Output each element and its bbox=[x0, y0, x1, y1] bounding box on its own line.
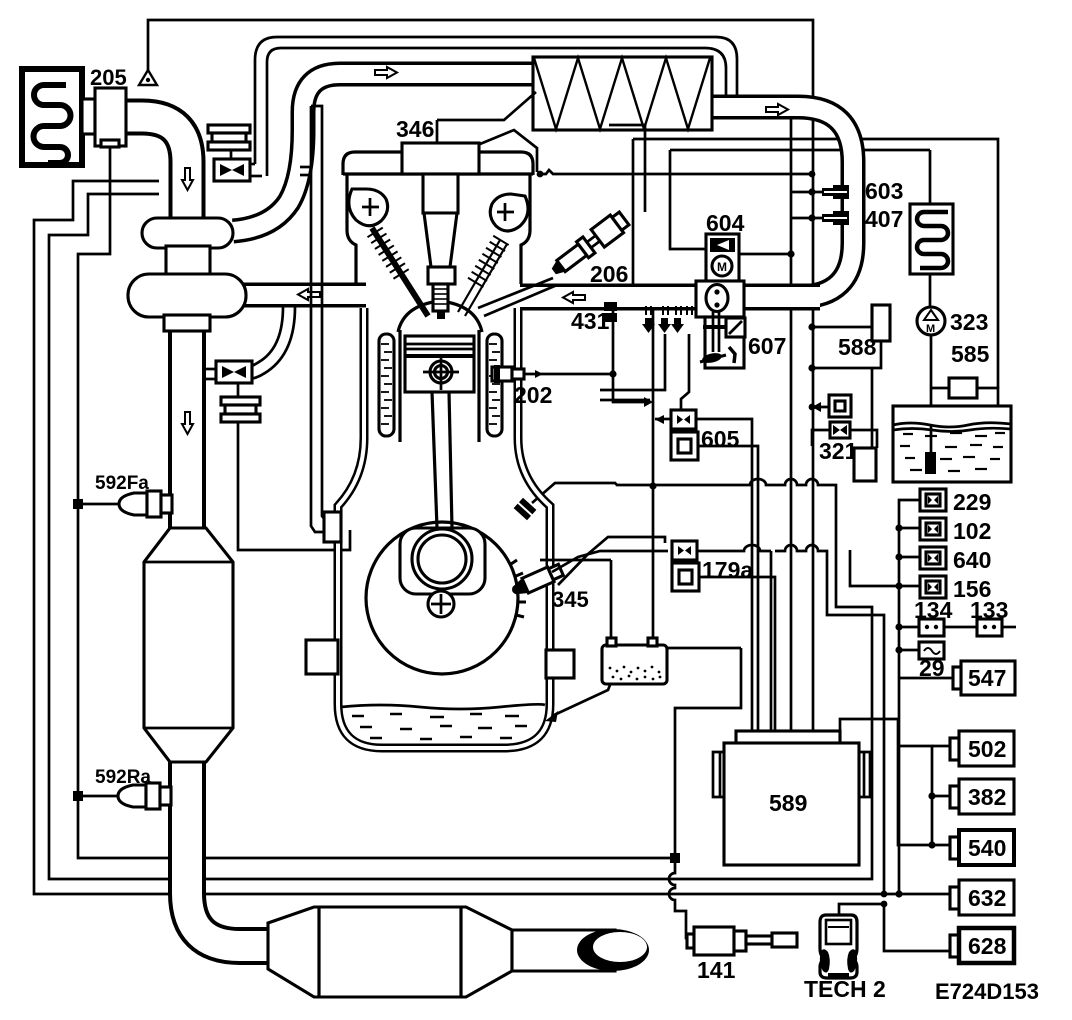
conrod bbox=[432, 392, 437, 528]
canister bbox=[602, 645, 667, 684]
svg-text:29: 29 bbox=[919, 655, 945, 681]
heater box 407b bbox=[929, 150, 932, 204]
bottom connector boxes bbox=[950, 731, 1014, 766]
exhaust downpipe turbo->catalyst bbox=[168, 328, 206, 532]
svg-text:502: 502 bbox=[968, 736, 1006, 762]
water jacket gauges bbox=[379, 334, 394, 436]
TECH2 scanner bbox=[820, 915, 857, 978]
exhaust port teardrop right bbox=[490, 194, 528, 231]
crankshaft big circle bbox=[511, 560, 526, 617]
svg-text:102: 102 bbox=[953, 518, 991, 544]
321 connectors bbox=[829, 395, 851, 417]
wire canister top corner bbox=[667, 647, 741, 650]
svg-text:431: 431 bbox=[571, 308, 610, 334]
svg-text:640: 640 bbox=[953, 547, 991, 573]
wastegate actuator capsule bbox=[237, 383, 240, 397]
breather thin pipe x311/x322 bbox=[311, 106, 326, 532]
cylinder head outer walls bbox=[347, 174, 356, 284]
179a wires bbox=[697, 545, 771, 731]
wire head-top y174 to right bundle bbox=[541, 170, 812, 174]
svg-text:346: 346 bbox=[396, 116, 434, 142]
svg-text:382: 382 bbox=[968, 784, 1006, 810]
svg-text:547: 547 bbox=[968, 665, 1006, 691]
manifold nipples + arrows bbox=[646, 306, 692, 315]
wire W_B: stub on intake pipe -> x49 -> y879 -> up x872 -> y607 -> x836 -> y485 -> sensor S1 bbox=[49, 194, 872, 879]
canister vent wire from sump bbox=[552, 680, 612, 716]
wire ECU x840 to 502/382/540 tree bbox=[840, 719, 950, 845]
29 bbox=[919, 642, 944, 659]
179a connector pair bbox=[672, 541, 697, 560]
muffler bbox=[268, 907, 512, 997]
ECU 589 bbox=[736, 731, 840, 745]
injector spray lines bbox=[478, 278, 553, 308]
air filter bbox=[22, 69, 82, 165]
idle bypass valve (top) bbox=[214, 159, 250, 181]
damper capsule above valve bbox=[230, 147, 233, 159]
wire W_A: stub on intake pipe -> left border x34 -> bottom y894 -> connector 632 bbox=[34, 181, 952, 894]
exhaust pipe catalyst->muffler bbox=[187, 758, 272, 946]
205 mass airflow sensor bbox=[82, 99, 95, 134]
purge line vertical x653 manifold->canister bbox=[652, 310, 655, 639]
intake manifold run (right of engine) bbox=[520, 284, 820, 311]
catalytic converter bbox=[144, 528, 233, 762]
right column connector bus bbox=[899, 500, 920, 894]
603/407 connectors on pipe bbox=[822, 185, 849, 225]
nipple wires bbox=[600, 334, 665, 390]
svg-text:345: 345 bbox=[552, 587, 589, 612]
long wire y550 to right bbox=[775, 545, 884, 894]
346 ignition cartridge bbox=[402, 143, 479, 174]
bypass thin pipe from valve up over to charge pipe bbox=[255, 37, 737, 164]
605 wires bbox=[655, 418, 671, 421]
left valve stem+spring bbox=[372, 228, 428, 316]
turbine outlet neck bbox=[164, 315, 210, 331]
svg-text:585: 585 bbox=[951, 341, 990, 367]
wastegate valve bbox=[216, 361, 252, 383]
long wire x791 from charge pipe to ECU bbox=[790, 110, 793, 731]
345 wires to 179a bbox=[552, 551, 668, 572]
compressor-turbine shaft housing bbox=[166, 246, 210, 276]
605 connector pair bbox=[671, 410, 696, 429]
pump 323 bbox=[929, 274, 932, 307]
air intake elbow from throttle body bbox=[124, 117, 187, 222]
actuator vacuum line down and right to crankcase bbox=[238, 422, 350, 550]
628 wire + TECH2 cable bbox=[884, 904, 950, 951]
svg-text:632: 632 bbox=[968, 885, 1006, 911]
431 connector bbox=[604, 302, 617, 311]
exhaust manifold run (left of engine to turbo) bbox=[240, 283, 366, 308]
intake port teardrop left bbox=[349, 189, 388, 226]
wrist pin bbox=[430, 361, 452, 383]
crank sensor 345 bbox=[509, 563, 564, 599]
svg-text:588: 588 bbox=[838, 334, 877, 360]
svg-text:229: 229 bbox=[953, 489, 991, 515]
wire W_C: MAF sensor -> x78 -> y858 -> junction 675,858 bbox=[78, 147, 675, 858]
top thin vacuum line y20 bbox=[148, 20, 813, 731]
ignition switch 141 bbox=[687, 934, 694, 948]
injector 206 bbox=[547, 210, 631, 281]
svg-text:141: 141 bbox=[697, 957, 736, 983]
wastegate pipe manifold->valve bbox=[244, 307, 283, 369]
combustion dome bbox=[398, 301, 482, 332]
crank journal bbox=[412, 529, 472, 589]
valve cover bbox=[343, 152, 533, 175]
547 bbox=[961, 661, 1015, 695]
svg-text:TECH 2: TECH 2 bbox=[804, 976, 886, 1002]
connector boxes 229/102/640/156 bbox=[920, 489, 946, 511]
engine mount tabs bbox=[306, 640, 338, 674]
main charge pipe: compressor -> up -> intercooler bbox=[233, 74, 533, 231]
spark plug bbox=[423, 174, 458, 213]
svg-text:E724D153: E724D153 bbox=[935, 979, 1039, 1004]
charge pipe: intercooler -> right loop -> throttle bbox=[712, 107, 853, 297]
svg-text:M: M bbox=[926, 323, 935, 335]
triangle vent symbol bbox=[139, 70, 157, 85]
svg-text:407: 407 bbox=[865, 206, 903, 232]
crankcase/sump double wall bbox=[338, 308, 550, 748]
crank web bbox=[400, 528, 485, 594]
svg-text:607: 607 bbox=[748, 333, 786, 359]
crank sensor S1 (top) bbox=[511, 495, 540, 523]
202 wire to junction bbox=[524, 373, 613, 376]
585 bbox=[949, 378, 977, 398]
cylinder walls bbox=[398, 330, 401, 442]
svg-text:592Fa: 592Fa bbox=[95, 473, 149, 494]
svg-text:603: 603 bbox=[865, 178, 903, 204]
fuel line wire up bbox=[609, 125, 645, 212]
svg-text:589: 589 bbox=[769, 790, 807, 816]
oil level + dashes bbox=[341, 704, 545, 709]
607 throttle body bbox=[696, 281, 744, 317]
knock sensor 202 bbox=[492, 367, 512, 381]
svg-text:628: 628 bbox=[968, 933, 1007, 959]
svg-text:605: 605 bbox=[701, 426, 740, 452]
svg-text:205: 205 bbox=[90, 65, 127, 90]
wire from ECU area down to 141 bbox=[669, 648, 741, 938]
svg-text:604: 604 bbox=[706, 210, 745, 236]
svg-text:202: 202 bbox=[514, 382, 552, 408]
turbine bbox=[128, 274, 246, 317]
right valve stem+spring bbox=[458, 240, 500, 312]
svg-text:206: 206 bbox=[590, 261, 628, 287]
svg-text:321: 321 bbox=[819, 438, 858, 464]
svg-text:M: M bbox=[717, 260, 727, 274]
588 bbox=[872, 305, 890, 341]
svg-text:179a: 179a bbox=[702, 557, 753, 583]
intercooler bbox=[533, 57, 712, 130]
flow arrows bbox=[375, 67, 397, 78]
tank bbox=[893, 406, 1011, 482]
piston bbox=[405, 336, 474, 392]
svg-text:540: 540 bbox=[968, 835, 1006, 861]
tailpipe bbox=[512, 930, 615, 971]
604 throttle actuator bbox=[706, 234, 739, 281]
thin rect frame right bbox=[633, 139, 998, 388]
turbo compressor bbox=[142, 218, 233, 248]
crank bolt circle bbox=[428, 591, 454, 617]
svg-text:323: 323 bbox=[950, 309, 988, 335]
